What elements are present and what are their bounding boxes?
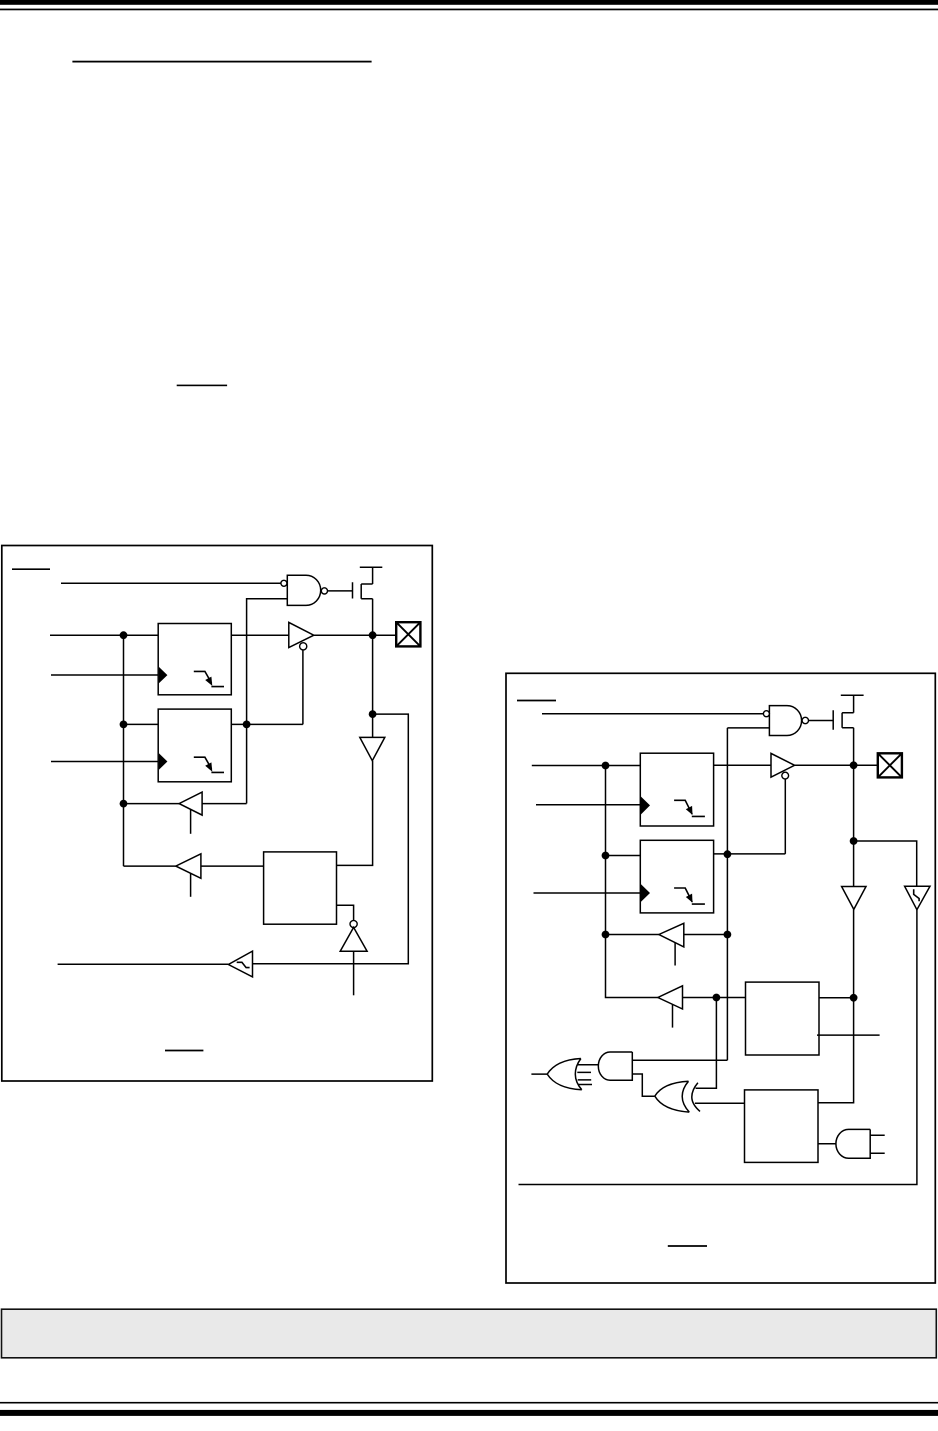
wire WR TRIS to U13 CK bbox=[534, 892, 641, 894]
NAND U1 input bubble bbox=[281, 580, 287, 586]
note underline (fig2) bbox=[668, 1245, 707, 1247]
wire U7 input bbox=[202, 803, 247, 805]
inverter U9 bbox=[340, 927, 367, 951]
wire U5 to latch U6 bbox=[337, 761, 373, 866]
wire WR Port to U12 CK bbox=[536, 804, 640, 806]
NAND gate U1 bbox=[287, 575, 320, 605]
RD Port buffer U19 (fig2) bbox=[658, 986, 683, 1009]
RD Port buffer U8 bbox=[176, 854, 201, 879]
wire U22 output stub bbox=[531, 1073, 547, 1075]
U10 hysteresis glyph bbox=[237, 962, 250, 967]
wire TRIS Q vertical (fig2) bbox=[726, 728, 728, 1060]
wire data bus to U3 D bbox=[124, 723, 159, 725]
top thin rule bbox=[0, 9, 938, 11]
wire U7 output to bus bbox=[124, 803, 180, 805]
input buffer U5 (down) bbox=[360, 737, 385, 760]
wire U19 input from latch U18 bbox=[683, 997, 746, 999]
I/O pin box (fig2) bbox=[878, 753, 902, 777]
wire buffer to I/O pin bbox=[314, 634, 396, 636]
tristate output buffer U4 bbox=[289, 622, 314, 647]
wire TRIS to NAND input (fig2) bbox=[727, 727, 769, 729]
wire data bus vertical (fig1) bbox=[123, 635, 125, 866]
wire NAND output to gate bbox=[328, 590, 353, 592]
NAND U11 output bubble bbox=[802, 717, 808, 723]
wire U15 output to latch U18 bbox=[818, 909, 854, 1102]
wire U16 output RB0/INT path bbox=[519, 910, 917, 1185]
Schmitt trigger U16 (down) bbox=[905, 886, 930, 910]
overline RBPU label (fig2) bbox=[517, 700, 556, 702]
junction dots fig1 bbox=[120, 631, 377, 807]
U13 clock wedge bbox=[641, 884, 650, 901]
overline RBPU label (fig1) bbox=[12, 568, 50, 570]
U8 enable stub bbox=[190, 873, 192, 896]
wire Q1 drain to pin node bbox=[372, 599, 374, 738]
overline TRIS label in body text bbox=[177, 385, 227, 387]
U14 enable bubble bbox=[782, 772, 789, 779]
VDD symbol (fig1) bbox=[360, 567, 383, 584]
wire U10 output RB0/INT bbox=[58, 963, 229, 965]
U3 latch symbol bbox=[194, 757, 224, 772]
TRIS latch U3 (fig1) bbox=[158, 709, 231, 782]
wire pin node to RD logic bbox=[253, 714, 409, 964]
wire buffer to I/O pin (fig2) bbox=[795, 764, 878, 766]
wire XOR to U20 bbox=[695, 1102, 745, 1104]
NAND U1 output bubble bbox=[321, 588, 327, 594]
wire U18 Q1 stub bbox=[817, 1034, 880, 1036]
transistor Q1 P-channel pull-up bbox=[353, 582, 373, 599]
OR gate U22 Set RBIF bbox=[547, 1059, 582, 1090]
figure 1 frame bbox=[2, 546, 433, 1082]
wire U20 to U24 bbox=[818, 1143, 836, 1145]
wire TRIS Q to NAND input bbox=[247, 599, 288, 725]
U19 enable stub bbox=[672, 1004, 674, 1027]
wire U6 EN stub bbox=[337, 905, 354, 920]
U2 clock wedge bbox=[159, 667, 168, 683]
wire U21 output to OR bbox=[578, 1064, 599, 1066]
wire NAND output to gate (fig2) bbox=[809, 720, 834, 722]
U12 latch symbol bbox=[674, 800, 705, 816]
wire enable vertical bbox=[302, 650, 304, 725]
wire U21 top input bbox=[632, 1059, 727, 1061]
Schmitt trigger U10 (fig1) bbox=[228, 951, 252, 977]
wire data bus vertical (fig2) bbox=[606, 766, 658, 998]
data latch U2 (fig1) bbox=[158, 624, 231, 695]
wire pin node to feedback bbox=[854, 841, 917, 887]
wire U17 input bbox=[684, 934, 728, 936]
wire WR Port to U2 CK bbox=[51, 674, 158, 676]
AND gate U21 bbox=[598, 1052, 632, 1080]
heading underline bbox=[72, 61, 371, 63]
RD TRIS buffer U17 (fig2) bbox=[659, 923, 684, 947]
U2 latch symbol bbox=[194, 671, 224, 686]
AND gate U24 bbox=[836, 1129, 870, 1158]
wire U2 Q to output buffer bbox=[231, 634, 288, 636]
wire data bus to U2 D bbox=[50, 634, 158, 636]
wire U8 output to bus bbox=[124, 865, 176, 867]
latch U20 (fig2) bbox=[745, 1090, 819, 1163]
wire TRIS Q down to RD TRIS buffer bbox=[246, 724, 248, 803]
input buffer U15 (down) bbox=[842, 887, 866, 910]
wire RBPU (fig1) bbox=[61, 582, 281, 584]
wire U17 output to bus bbox=[606, 934, 659, 936]
U16 hysteresis glyph bbox=[914, 889, 919, 901]
wire pin data to XOR bbox=[696, 998, 717, 1089]
note underline (fig1) bbox=[165, 1050, 203, 1052]
bottom thin rule bbox=[0, 1402, 938, 1404]
NAND U11 input bubble bbox=[763, 711, 769, 717]
wire U3 Q to node A bbox=[231, 723, 303, 725]
U24 input stubs bbox=[870, 1135, 885, 1153]
TRIS latch U13 (fig2) bbox=[640, 840, 713, 913]
U12 clock wedge bbox=[641, 797, 650, 815]
VDD symbol (fig2) bbox=[841, 695, 864, 712]
U3 clock wedge bbox=[159, 753, 168, 769]
I/O pin box (fig1) bbox=[396, 622, 420, 646]
wire Q2 drain to pin node bbox=[853, 728, 855, 887]
wire U21 bottom input from XOR bbox=[632, 1074, 655, 1096]
data latch U12 (fig2) bbox=[640, 753, 713, 826]
latch U18 (fig2) bbox=[746, 982, 820, 1055]
wire WR TRIS to U3 CK bbox=[51, 761, 158, 763]
U17 enable stub bbox=[674, 943, 676, 966]
RD TRIS buffer U7 bbox=[179, 792, 202, 815]
U7 enable stub bbox=[190, 810, 192, 834]
transistor Q2 P-channel pull-up bbox=[833, 710, 853, 730]
wire data bus to U13 D bbox=[606, 855, 641, 857]
NAND gate U11 bbox=[769, 706, 801, 736]
junction dots fig2 bbox=[602, 761, 858, 1001]
U13 latch symbol bbox=[674, 888, 705, 904]
top thick rule bbox=[0, 0, 938, 5]
wires from other RB7:RB4 pins bbox=[577, 1072, 592, 1084]
wire U9 input stub RD TRIS bbox=[353, 951, 355, 995]
wire data bus to U12 D bbox=[532, 765, 641, 767]
wire RBPU (fig2) bbox=[542, 713, 763, 715]
inverter U9 bubble bbox=[350, 920, 357, 927]
wire U12 Q to output buffer bbox=[714, 764, 771, 766]
figure 2 frame bbox=[506, 673, 935, 1283]
tristate output buffer U14 bbox=[771, 753, 795, 777]
U4 enable bubble bbox=[300, 643, 307, 650]
latch U6 (fig1) bbox=[264, 852, 337, 924]
XOR gate U23 bbox=[655, 1081, 700, 1112]
bottom thick rule bbox=[0, 1410, 938, 1416]
wire U8 input from U6 bbox=[201, 865, 264, 867]
note box bbox=[2, 1309, 937, 1358]
wire XOR top input bbox=[696, 1087, 717, 1089]
wire U18 to pin vertical bbox=[819, 997, 854, 999]
wire U13 Q to enable bbox=[714, 779, 786, 854]
